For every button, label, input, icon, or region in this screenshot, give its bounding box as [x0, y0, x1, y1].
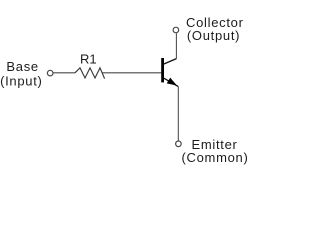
svg-text:(Common): (Common) — [182, 150, 249, 165]
svg-text:(Input): (Input) — [0, 74, 42, 89]
svg-text:(Output): (Output) — [187, 28, 240, 43]
svg-text:Base: Base — [6, 59, 38, 74]
svg-text:R1: R1 — [80, 52, 97, 67]
